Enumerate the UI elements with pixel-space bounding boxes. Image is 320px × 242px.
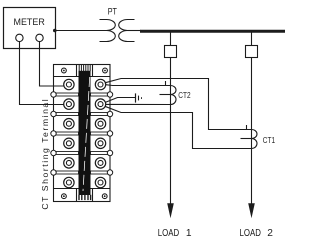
feeder LOAD 1 conductor: [170, 58, 172, 205]
wire bus drop to fuse 1: [170, 33, 172, 46]
wire meter left terminal to TB row2: [20, 41, 65, 104]
TB edge link screws right: [107, 92, 112, 175]
arrowhead LOAD 2: [248, 203, 255, 218]
TB top header inner edges: [76, 65, 78, 77]
svg-text:CT2: CT2: [178, 90, 191, 100]
CT1 secondary winding: [252, 130, 258, 149]
TB header screws top: [62, 68, 67, 73]
junction dot on meter output: [53, 29, 57, 33]
CT1 polarity tick: [246, 125, 248, 130]
meter terminal right: [36, 34, 43, 41]
fuse F1 (square): [165, 46, 177, 58]
TB shorting bar teeth bottom: [79, 195, 91, 200]
wire TB row2 to CT2 bottom lead: [106, 103, 171, 105]
TB header screws bottom: [62, 194, 67, 199]
feeder LOAD 2 conductor: [251, 58, 253, 205]
wire meter right terminal to TB row1: [40, 41, 65, 86]
svg-text:2: 2: [267, 228, 273, 239]
TB shorting bar teeth top: [79, 65, 90, 72]
bus (thick): [140, 30, 285, 33]
wire TB row1 to CT2 top lead: [106, 84, 171, 87]
TB bottom header inner edges: [76, 189, 78, 202]
svg-text:PT: PT: [108, 7, 117, 18]
wire TB row1 to CT1 top lead: [105, 79, 252, 130]
CT1 middle turn stub: [241, 138, 252, 140]
wire TB row2 to ground: [105, 98, 135, 103]
transformer PT left winding: [100, 20, 116, 42]
meter M1: [4, 8, 56, 49]
wire bus drop to fuse 2: [251, 33, 253, 46]
TB shorting bar (black): [79, 71, 91, 195]
svg-text:LOAD: LOAD: [240, 228, 261, 239]
wire meter to PT primary: [56, 30, 107, 32]
ground symbol: [135, 93, 137, 102]
arrowhead LOAD 1: [167, 203, 174, 218]
svg-text:1: 1: [186, 228, 192, 239]
transformer PT right winding: [119, 20, 135, 42]
svg-text:CT1: CT1: [263, 135, 276, 145]
TB shorting link bars left: [54, 93, 79, 174]
TB edge link screws left: [51, 92, 56, 175]
TB shorting bar white diagonal scratch: [83, 77, 90, 191]
svg-text:METER: METER: [14, 17, 45, 28]
CT2 middle turn stub: [160, 94, 171, 96]
CT2 polarity tick: [165, 81, 167, 86]
TB terminal donuts left column: [64, 79, 74, 187]
wire TB row2 to CT1 bottom lead: [105, 106, 252, 148]
terminal block TB outline: [54, 65, 111, 202]
CT2 secondary winding: [171, 86, 177, 105]
meter terminal left: [16, 34, 23, 41]
fuse F2 (square): [246, 46, 258, 58]
TB shorting link bars right: [91, 93, 111, 174]
TB terminal donuts right column: [95, 79, 105, 187]
TB row separators: [54, 76, 111, 78]
svg-text:LOAD: LOAD: [158, 228, 179, 239]
svg-text:CT Shorting Terminal: CT Shorting Terminal: [40, 99, 50, 209]
wire PT to bus: [128, 30, 142, 32]
